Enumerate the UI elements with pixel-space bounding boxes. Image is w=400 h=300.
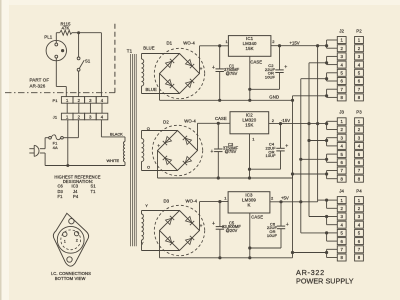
- wire bracket J3 pins 7-8: [326, 171, 328, 179]
- wire -15V bus vertical: [308, 63, 310, 217]
- svg-text:WO-4: WO-4: [185, 198, 197, 203]
- svg-text:CASE: CASE: [250, 60, 262, 65]
- wire gnd bus vertical: [292, 96, 294, 253]
- svg-text:CASE: CASE: [251, 215, 263, 220]
- wire D3 ground rail: [160, 257, 293, 259]
- capacitor C6 22UF/10UF: [280, 202, 282, 226]
- wire bracket J3 pins 3-4: [326, 138, 328, 146]
- node C2 tap: [278, 44, 281, 47]
- node gnd bus at gnd rail: [291, 99, 294, 102]
- wire D2 ground rail: [158, 177, 293, 179]
- wire bracket J4 pins 3-4: [326, 217, 328, 225]
- node C3 tap: [217, 122, 220, 125]
- wire J1-4 to T1 primary (BLACK): [100, 120, 102, 137]
- node J1-1 tap: [66, 164, 69, 167]
- capacitor C5 23,900MF 20V: [219, 202, 221, 227]
- wire plug bottom to line rail: [40, 152, 45, 154]
- svg-text:J3: J3: [339, 110, 344, 115]
- svg-text:+: +: [157, 143, 160, 149]
- IC package TO-3 outline: [53, 213, 90, 267]
- capacitor C3 3750MF 75V: [217, 123, 219, 149]
- transformer T1 secondary 2 (orange): [142, 139, 144, 162]
- wire plus-5V rail: [270, 201, 318, 203]
- svg-text:1: 1: [64, 239, 66, 243]
- transformer T1 secondary 1 (blue): [142, 59, 144, 86]
- wire J1-1 down: [67, 120, 69, 166]
- svg-text:PL1: PL1: [44, 34, 53, 39]
- svg-text:@20V: @20V: [226, 228, 238, 233]
- svg-text:PART OF: PART OF: [30, 77, 50, 82]
- node -15V bus at -15V rail: [307, 122, 310, 125]
- svg-text:+15V: +15V: [290, 41, 300, 46]
- wire plus-15V rail: [271, 45, 327, 47]
- svg-text:BLUE: BLUE: [146, 87, 157, 92]
- svg-text:GND: GND: [269, 95, 279, 100]
- svg-text:10UF: 10UF: [266, 153, 277, 158]
- svg-text:47K: 47K: [62, 25, 70, 30]
- svg-text:F1: F1: [58, 194, 64, 199]
- wire J4 1-2 feed: [318, 199, 327, 201]
- wire +5V bus vertical: [300, 79, 302, 233]
- svg-text:O: O: [147, 126, 150, 131]
- svg-text:T1: T1: [91, 189, 97, 194]
- boundary AR-326 dash-dot: [5, 92, 115, 94]
- svg-text:10UF: 10UF: [265, 75, 276, 80]
- svg-text:+: +: [212, 221, 215, 227]
- op-amp regulator IC2 LM320-15K: [230, 112, 269, 134]
- node C1 tap: [218, 44, 221, 47]
- wire J3 3-4 feed: [309, 140, 327, 142]
- fuse F1: [49, 136, 52, 139]
- node C5 tap: [218, 200, 221, 203]
- svg-text:K: K: [247, 203, 250, 208]
- svg-text:4A: 4A: [53, 145, 58, 150]
- transformer T1 core: [130, 54, 132, 246]
- svg-text:P4: P4: [356, 188, 362, 193]
- svg-text:BOTTOM VIEW: BOTTOM VIEW: [55, 276, 86, 281]
- svg-text:D1: D1: [166, 40, 172, 45]
- node +15V bus at J3 feed: [316, 122, 319, 125]
- wire bracket J2 pins 5-6: [326, 73, 328, 81]
- TO-3 mounting hole top: [69, 219, 74, 224]
- svg-text:S1: S1: [85, 58, 91, 63]
- svg-text:J2: J2: [339, 28, 344, 33]
- svg-text:2: 2: [76, 239, 78, 243]
- svg-text:C6: C6: [58, 184, 64, 189]
- svg-text:+: +: [285, 144, 288, 150]
- svg-text:+: +: [210, 149, 213, 155]
- node IC3 case bottom: [248, 256, 251, 259]
- node gnd bus at J4 7-8: [291, 251, 294, 254]
- node gnd bus at J3 7-8: [291, 172, 294, 175]
- node C3 bottom: [217, 176, 220, 179]
- svg-text:BLACK: BLACK: [110, 131, 123, 136]
- bridge rectifier D2: [152, 125, 202, 175]
- node +15V bus at +15V rail: [316, 44, 319, 47]
- svg-text:D3: D3: [163, 198, 169, 203]
- TO-3 pin 2: [74, 231, 78, 235]
- node C4 tap: [279, 122, 282, 125]
- node C6 tap: [279, 200, 282, 203]
- wire gnd bus top feed J2 7-8: [293, 95, 327, 97]
- svg-text:J1: J1: [53, 114, 58, 119]
- svg-text:O: O: [147, 165, 150, 170]
- wire bracket J4 pins 1-2: [326, 200, 328, 208]
- node +5V bus at +5V rail: [299, 200, 302, 203]
- wire J3 7-8 feed: [293, 173, 327, 175]
- svg-text:WO-4: WO-4: [184, 119, 196, 124]
- node junction R115/S1: [77, 31, 80, 34]
- wire IC1 case to gnd: [249, 56, 251, 100]
- svg-text:S1: S1: [91, 184, 97, 189]
- op-amp regulator IC1 LM340-15K: [228, 36, 271, 57]
- wire minus-15V rail: [269, 123, 327, 125]
- wire D2 plus down: [157, 151, 159, 179]
- ground rail GND: [160, 99, 293, 101]
- svg-text:P4: P4: [73, 194, 79, 199]
- svg-text:D3: D3: [58, 189, 64, 194]
- node IC2 pin1 bottom: [248, 176, 251, 179]
- TO-3 mounting hole bottom: [67, 257, 72, 262]
- svg-text:Y: Y: [145, 203, 148, 208]
- svg-text:@75V: @75V: [226, 71, 238, 76]
- wire bracket J3 pins 5-6: [326, 154, 328, 162]
- svg-text:J4: J4: [73, 189, 78, 194]
- node C1 gnd: [218, 99, 221, 102]
- wire J4 5-6 feed: [301, 232, 327, 234]
- wire sec3 top (Y): [141, 211, 143, 215]
- svg-text:15K: 15K: [246, 46, 254, 51]
- node C5 bottom: [218, 256, 221, 259]
- capacitor C2 22UF/10UF: [279, 46, 281, 70]
- svg-text:WO-4: WO-4: [183, 40, 195, 45]
- svg-text:+: +: [286, 222, 289, 228]
- wire sec2 bottom (O): [141, 162, 143, 171]
- TO-3 pin 1: [63, 232, 67, 236]
- wire J4 7-8 feed: [293, 252, 327, 254]
- wire IC3 case to rail: [249, 213, 251, 258]
- node IC1 case gnd: [248, 99, 251, 102]
- wire bracket J2 pins 7-8: [326, 89, 328, 97]
- wire J1-2 to fuse: [77, 120, 79, 138]
- svg-text:IC3: IC3: [72, 184, 79, 189]
- wire bracket J4 pins 5-6: [326, 233, 328, 241]
- wire sec1 bottom (BLUE): [141, 86, 143, 94]
- wire sec2 top (O): [141, 131, 143, 139]
- svg-text:POWER SUPPLY: POWER SUPPLY: [296, 277, 354, 286]
- wire PL1 bottom to P1-1: [55, 58, 57, 87]
- wire top rail to P1-4: [77, 32, 101, 34]
- svg-text:P3: P3: [356, 110, 362, 115]
- svg-text:J4: J4: [339, 188, 344, 193]
- wire D3 minus down: [159, 231, 161, 258]
- bridge rectifier D1: [154, 48, 204, 98]
- AC plug P-line: [29, 148, 34, 150]
- wire bracket J2 pins 1-2: [326, 40, 328, 48]
- TO-3 can circle: [57, 226, 84, 253]
- wire AC neutral rail (WHITE): [45, 165, 125, 167]
- wire D2 minus to IC2 input: [197, 123, 199, 150]
- wire plug top to fuse: [40, 148, 45, 150]
- node +5V bus at J3 5-6: [299, 158, 302, 161]
- svg-text:+5V: +5V: [281, 196, 289, 201]
- wire bracket J3 pins 1-2: [326, 121, 328, 129]
- transformer T1 primary winding: [124, 137, 126, 142]
- wire IC2 pin1 to rail: [249, 134, 251, 178]
- wire J4 3-4 feed: [309, 216, 327, 218]
- svg-text:+: +: [284, 65, 287, 71]
- svg-text:P1: P1: [52, 98, 58, 103]
- svg-text:P2: P2: [356, 28, 362, 33]
- node -15V bus at J3 3-4: [307, 139, 310, 142]
- capacitor C4 22UF/10UF: [280, 124, 282, 149]
- wire -15V bus feed J2 3-4: [309, 62, 327, 64]
- svg-text:15K: 15K: [245, 123, 253, 128]
- plug PL1 (chassis connector): [46, 40, 66, 60]
- svg-text:@75V: @75V: [225, 149, 237, 154]
- svg-text:D2: D2: [163, 120, 169, 125]
- transformer T1 secondary 3 (yellow): [142, 214, 144, 240]
- svg-text:BLUE: BLUE: [143, 46, 154, 51]
- resistor R115: [56, 32, 59, 34]
- wires P1 to J1: [66, 103, 68, 113]
- svg-text:CASE: CASE: [215, 116, 227, 121]
- wire sec1 top (BLUE): [141, 54, 143, 60]
- svg-text:T1: T1: [127, 49, 133, 54]
- svg-text:10UF: 10UF: [267, 233, 278, 238]
- bridge rectifier D3: [154, 205, 204, 255]
- wire bracket J4 pins 7-8: [326, 249, 328, 257]
- wire +5V bus feed J2 5-6: [301, 78, 327, 80]
- wire C2 bottom to IC1 case: [250, 88, 280, 90]
- wire bracket J2 pins 3-4: [326, 56, 328, 64]
- wire D1 plus to IC1 input: [199, 46, 201, 74]
- svg-text:WHITE: WHITE: [107, 158, 120, 163]
- wire +15V bus vertical: [317, 46, 319, 200]
- svg-text:AR-326: AR-326: [30, 83, 46, 88]
- switch S1: [78, 33, 80, 57]
- capacitor C1 3750MF 75V: [219, 46, 221, 69]
- svg-text:+: +: [212, 65, 215, 71]
- wire PL1 top to R115: [55, 33, 57, 43]
- wire D3 plus to IC3 input: [199, 202, 201, 231]
- wire sec3 bottom (Y): [141, 240, 143, 251]
- TO-3 dashed circle: [61, 230, 81, 250]
- svg-text:Y: Y: [141, 241, 144, 246]
- svg-text:-15V: -15V: [281, 118, 290, 123]
- wire J3 5-6 feed: [301, 158, 327, 160]
- op-amp regulator IC3 LM309-K: [228, 192, 270, 213]
- wire D1 minus to gnd rail: [159, 74, 161, 101]
